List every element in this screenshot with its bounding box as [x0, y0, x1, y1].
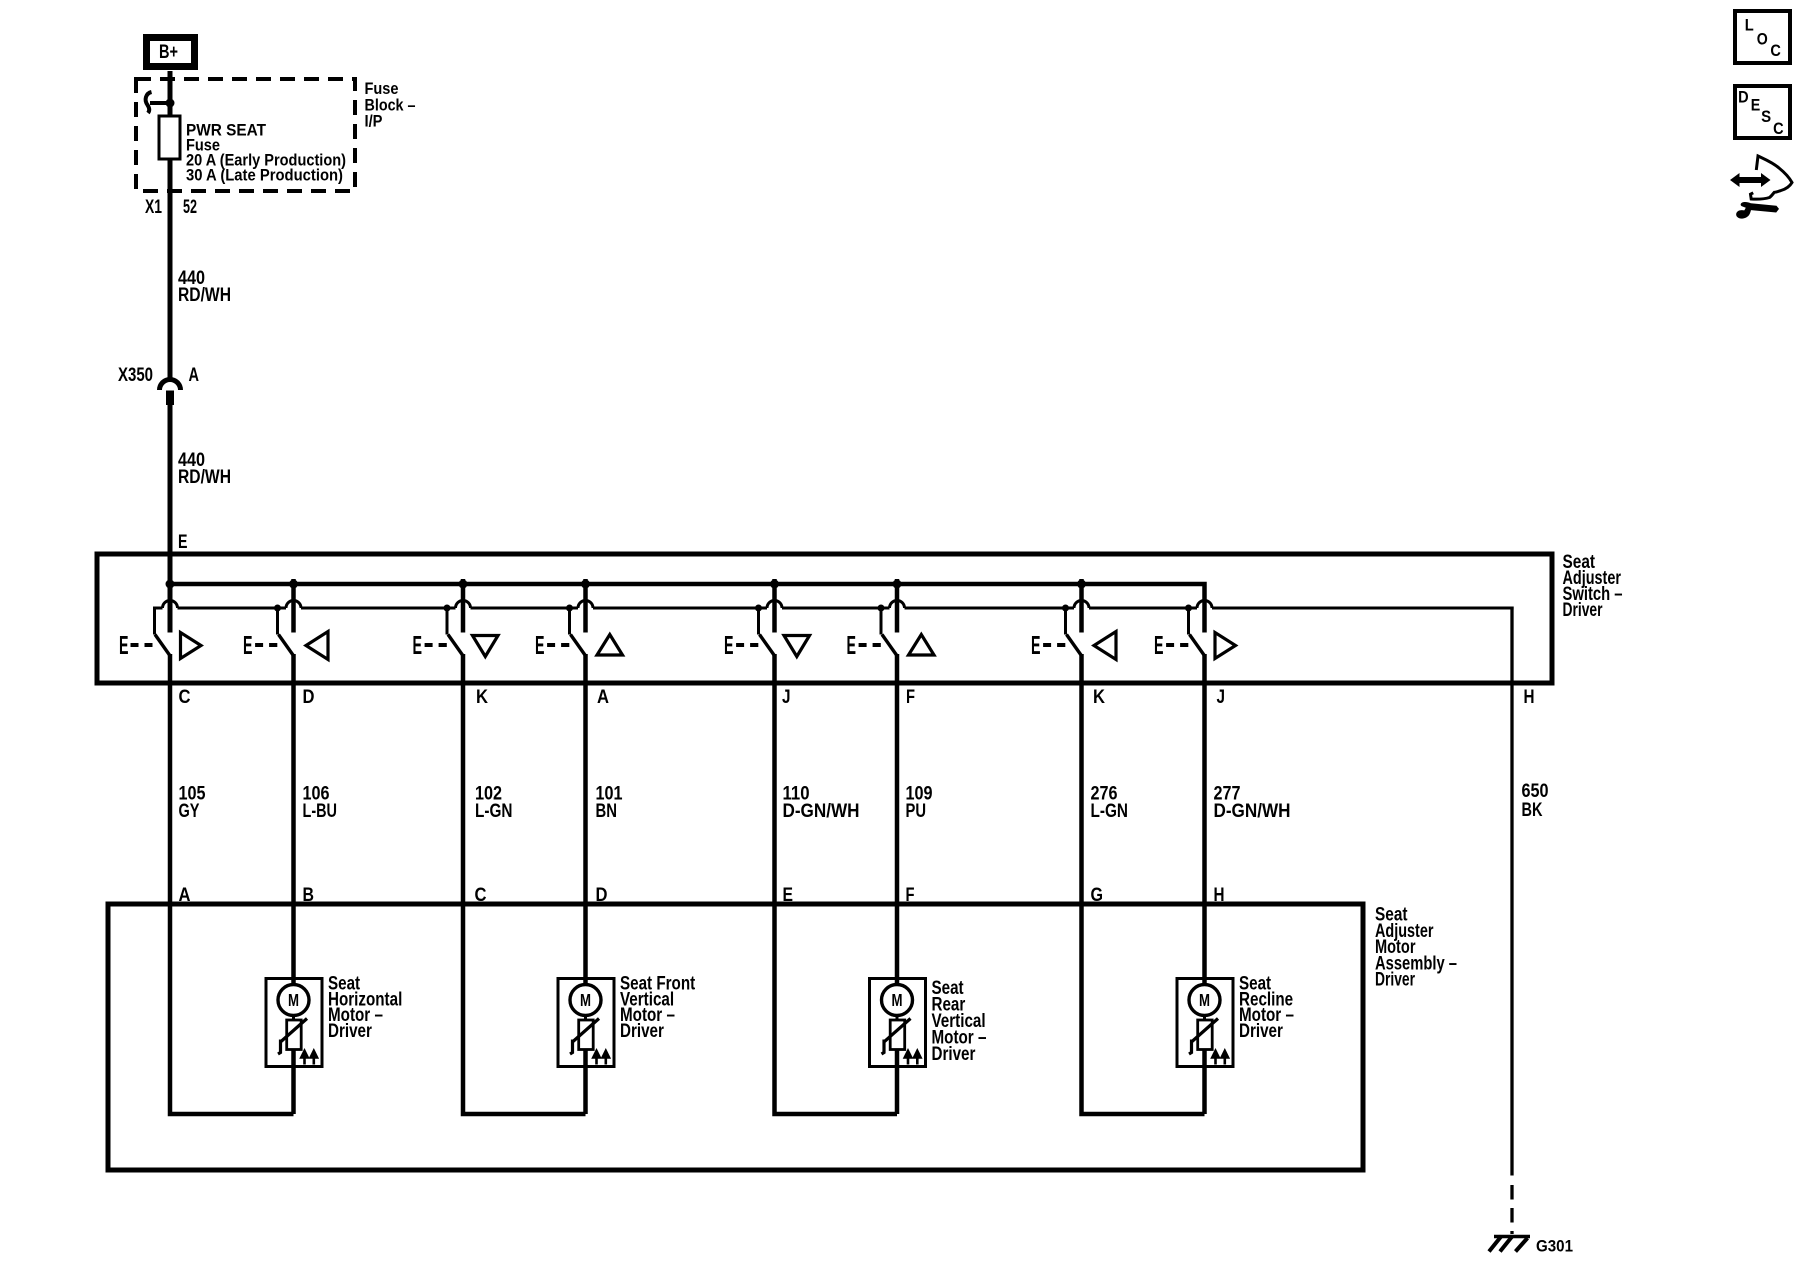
- switch 7 ground junction: [1062, 605, 1069, 612]
- svg-text:D: D: [1738, 88, 1749, 106]
- switch 8 ground-side contact: [1187, 608, 1190, 635]
- wire label: 101 BN: [596, 784, 623, 823]
- wire: switch 6 output to motor pin: [895, 654, 900, 904]
- svg-text:30 A (Late Production): 30 A (Late Production): [186, 166, 343, 185]
- svg-text:L: L: [1745, 17, 1754, 35]
- svg-text:K: K: [476, 687, 488, 708]
- svg-text:PU: PU: [906, 801, 927, 822]
- switch 4 ground junction: [566, 605, 573, 612]
- svg-text:E: E: [178, 532, 188, 553]
- wire: fuse output through connector X1 pin 52: [168, 159, 173, 380]
- switch 6 crossover hump: [890, 601, 905, 608]
- switch 1 lever: [155, 635, 170, 656]
- svg-text:X350: X350: [118, 365, 153, 386]
- switch 6 B+ stub and junction: [895, 579, 900, 633]
- wire: return path around seat recline motor: [1082, 904, 1205, 1114]
- switch 6 lever: [882, 635, 897, 656]
- switch 2 direction arrow: [306, 632, 328, 660]
- wire: 650 BK switch pin H to ground: [1510, 607, 1513, 1176]
- svg-text:E: E: [1031, 630, 1041, 660]
- svg-text:K: K: [1093, 687, 1105, 708]
- wire label: 110 D-GN/WH: [783, 784, 860, 823]
- svg-text:L-GN: L-GN: [475, 801, 513, 822]
- switch 4 crossover hump: [578, 601, 593, 608]
- seat horizontal motor - driver: [266, 979, 322, 1115]
- svg-text:Driver: Driver: [620, 1021, 664, 1042]
- svg-text:L-GN: L-GN: [1091, 801, 1129, 822]
- ground bus inside switch (to pin H): [178, 607, 1514, 610]
- seat recline motor - driver: [1177, 979, 1233, 1115]
- switch 1 B+ junction: [166, 580, 175, 589]
- switch 5 ground-side contact: [757, 608, 760, 635]
- battery feed terminal B+: [147, 38, 195, 67]
- svg-text:M: M: [892, 990, 903, 1010]
- switch 7 B+ stub and junction: [1079, 579, 1084, 633]
- switch 2 mechanical link E: [243, 630, 277, 660]
- wire label: 102 L-GN: [475, 784, 513, 823]
- switch 5 ground junction: [755, 605, 762, 612]
- switch 3 ground junction: [444, 605, 451, 612]
- bus bar tap inside fuse block: [146, 92, 175, 113]
- svg-text:BK: BK: [1522, 800, 1543, 821]
- svg-text:M: M: [580, 990, 591, 1010]
- icon: adjust-direction arrow: [1730, 156, 1792, 199]
- svg-text:D: D: [303, 687, 315, 708]
- svg-text:E: E: [1751, 97, 1761, 115]
- switch 6 direction arrow: [909, 635, 935, 656]
- switch 4 ground-side contact: [568, 608, 571, 635]
- wire label: 106 L-BU: [303, 784, 338, 823]
- wire label: 105 GY: [179, 784, 206, 823]
- switch 2 lever: [279, 635, 294, 656]
- switch 2 ground-side contact: [276, 608, 279, 635]
- label: PWR SEAT Fuse ratings: [186, 121, 346, 185]
- switch 3 crossover hump: [456, 601, 471, 608]
- switch 5 mechanical link E: [724, 630, 758, 660]
- seat front vertical motor - driver: [558, 979, 614, 1115]
- switch 4 mechanical link E: [535, 630, 569, 660]
- svg-text:H: H: [1524, 687, 1535, 708]
- svg-text:E: E: [724, 630, 734, 660]
- switch 8 mechanical link E: [1154, 630, 1188, 660]
- switch 6 ground junction: [878, 605, 885, 612]
- wire: switch 7 output to motor pin: [1079, 654, 1084, 904]
- switch 7 crossover hump: [1074, 601, 1089, 608]
- switch 4 direction arrow: [597, 635, 623, 656]
- switch 3 mechanical link E: [413, 630, 447, 660]
- svg-text:D-GN/WH: D-GN/WH: [1214, 801, 1291, 822]
- svg-text:E: E: [413, 630, 423, 660]
- svg-text:J: J: [1217, 687, 1226, 708]
- switch 5 crossover hump: [767, 601, 782, 608]
- switch 3 direction arrow: [473, 636, 499, 657]
- wire label: 277 D-GN/WH: [1214, 784, 1291, 823]
- svg-text:E: E: [847, 630, 857, 660]
- svg-text:Driver: Driver: [932, 1044, 976, 1065]
- svg-text:RD/WH: RD/WH: [178, 285, 231, 306]
- wire: switch 8 output to motor pin: [1202, 654, 1207, 904]
- switch 5 B+ stub and junction: [772, 579, 777, 633]
- switch 7 lever: [1067, 635, 1082, 656]
- switch 1 mechanical link E: [119, 630, 153, 660]
- wire: feed into seat recline motor: [1202, 904, 1207, 987]
- svg-text:D-GN/WH: D-GN/WH: [783, 801, 860, 822]
- svg-text:M: M: [1199, 990, 1210, 1010]
- label: seat horizontal motor: [328, 974, 402, 1042]
- wire label: 440 RD/WH (lower): [178, 450, 231, 488]
- switch 7 ground-side contact: [1064, 608, 1067, 635]
- svg-text:RD/WH: RD/WH: [178, 467, 231, 488]
- svg-text:I/P: I/P: [365, 112, 383, 131]
- svg-text:G301: G301: [1536, 1237, 1573, 1256]
- switch 5 lever: [760, 635, 775, 656]
- switch 6 mechanical link E: [847, 630, 881, 660]
- wire: switch 3 output to motor pin: [461, 654, 466, 904]
- label: seat front vertical motor: [620, 974, 696, 1042]
- switch 1 ground-side contact: [155, 608, 163, 635]
- wire: X350 to seat adjuster switch pin E: [168, 405, 173, 633]
- svg-text:E: E: [243, 630, 253, 660]
- svg-text:Driver: Driver: [1375, 970, 1415, 991]
- switch 8 direction arrow: [1215, 633, 1236, 659]
- switch 3 B+ stub and junction: [461, 579, 466, 633]
- switch 4 B+ stub and junction: [583, 579, 588, 633]
- switch 8 lever: [1190, 635, 1205, 656]
- wire: return path around seat horizontal motor: [170, 904, 294, 1114]
- wire: feed into seat rear vertical motor: [895, 904, 900, 987]
- switch 8 ground junction: [1185, 605, 1192, 612]
- wire: B+ feed into fuse block: [168, 71, 173, 116]
- switch 2 B+ stub and junction: [291, 579, 296, 633]
- switch 4 lever: [571, 635, 586, 656]
- switch 2 crossover hump: [286, 601, 301, 608]
- wire: switch 2 output to motor pin: [291, 654, 296, 904]
- svg-text:O: O: [1757, 30, 1768, 48]
- svg-text:E: E: [119, 630, 129, 660]
- wire label: 650 BK: [1522, 781, 1549, 821]
- switch 1 crossover hump: [163, 601, 178, 608]
- svg-text:E: E: [1154, 630, 1164, 660]
- wire: switch 4 output to motor pin: [583, 654, 588, 904]
- fuse PWR SEAT: [159, 116, 180, 159]
- wire: switch 1 output to motor pin: [168, 654, 173, 904]
- wire label: 440 RD/WH (upper): [178, 268, 231, 306]
- svg-text:Driver: Driver: [1239, 1021, 1283, 1042]
- switch 7 mechanical link E: [1031, 630, 1065, 660]
- icon: wrench: [1736, 202, 1779, 219]
- svg-text:X1: X1: [145, 197, 162, 218]
- svg-text:B+: B+: [159, 42, 178, 63]
- svg-text:E: E: [535, 630, 545, 660]
- label: seat rear vertical motor: [932, 978, 987, 1065]
- switch 3 ground-side contact: [446, 608, 449, 635]
- switch 2 ground junction: [274, 605, 281, 612]
- svg-text:C: C: [179, 687, 191, 708]
- switch 3 lever: [448, 635, 463, 656]
- wire: return path around seat rear vertical motor: [775, 904, 898, 1114]
- svg-text:Driver: Driver: [1563, 600, 1603, 621]
- svg-text:GY: GY: [179, 801, 200, 822]
- svg-text:Driver: Driver: [328, 1021, 372, 1042]
- svg-text:C: C: [1773, 120, 1784, 138]
- svg-text:C: C: [1770, 42, 1781, 60]
- icon: LOC box: [1735, 11, 1790, 63]
- in-line connector X350 pin A: [160, 380, 181, 406]
- svg-text:S: S: [1761, 108, 1771, 126]
- icon: DESC box: [1735, 86, 1790, 138]
- label: Fuse Block - I/P: [365, 79, 416, 131]
- svg-text:650: 650: [1522, 781, 1549, 802]
- svg-text:M: M: [288, 990, 299, 1010]
- wire: return path around seat front vertical motor: [463, 904, 586, 1114]
- label: seat recline motor: [1239, 974, 1294, 1042]
- wire: switch 5 output to motor pin: [772, 654, 777, 904]
- seat adjuster switch - driver (outline): [97, 554, 1552, 683]
- wire label: 109 PU: [906, 784, 933, 823]
- svg-text:F: F: [906, 687, 915, 708]
- svg-text:L-BU: L-BU: [303, 801, 338, 822]
- seat rear vertical motor - driver: [870, 979, 926, 1115]
- svg-text:52: 52: [183, 197, 197, 218]
- wire label: 276 L-GN: [1091, 784, 1129, 823]
- svg-text:BN: BN: [596, 801, 618, 822]
- wire: feed into seat front vertical motor: [583, 904, 588, 987]
- label: Seat Adjuster Switch - Driver: [1563, 552, 1623, 621]
- switch 1 direction arrow: [181, 633, 202, 659]
- seat adjuster motor assembly - driver (outline): [108, 904, 1363, 1170]
- B+ bus inside switch: [170, 584, 1205, 633]
- wire: feed into seat horizontal motor: [291, 904, 296, 987]
- svg-text:J: J: [782, 687, 791, 708]
- switch 7 direction arrow: [1094, 632, 1116, 660]
- label: Seat Adjuster Motor Assembly - Driver: [1375, 905, 1457, 991]
- switch 8 crossover hump: [1197, 601, 1212, 608]
- svg-text:A: A: [597, 687, 609, 708]
- switch 5 direction arrow: [784, 636, 810, 657]
- switch 6 ground-side contact: [880, 608, 883, 635]
- svg-text:A: A: [189, 365, 200, 386]
- fuse block - I/P (dashed outline): [136, 79, 355, 191]
- ground G301: [1489, 1236, 1530, 1252]
